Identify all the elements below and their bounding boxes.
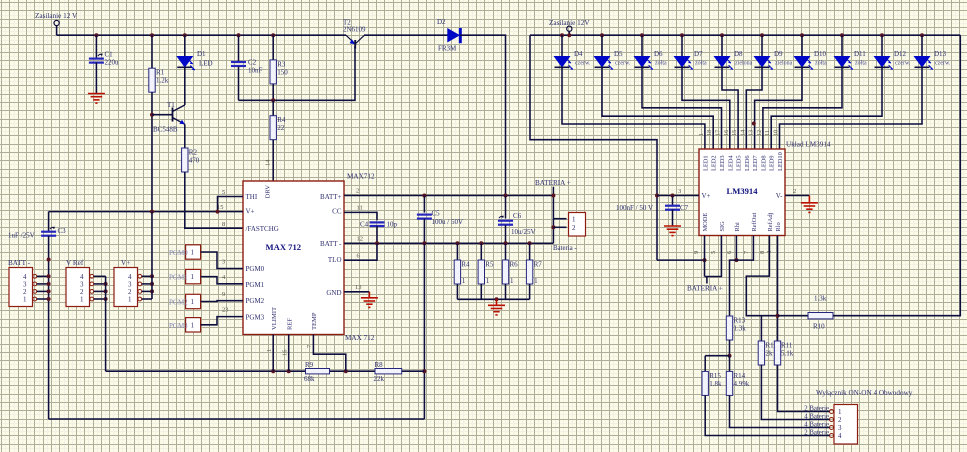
svg-text:BATT+: BATT+ [320, 193, 342, 201]
svg-text:VLIMIT: VLIMIT [271, 307, 278, 330]
svg-text:RefAdj: RefAdj [767, 212, 774, 231]
wire VLIMIT row (left) [106, 370, 311, 372]
LED D8 (zielona) [715, 50, 753, 70]
svg-text:D7: D7 [694, 50, 703, 58]
wire D13 cathode to LM3914 pin 10 [780, 67, 923, 149]
wire VLIMIT row (right) [402, 370, 425, 372]
junction D11/rail [840, 33, 844, 37]
svg-text:470: 470 [189, 157, 200, 165]
wire T1 base [152, 114, 173, 116]
wire T2 collector to D2 [364, 34, 448, 36]
LED D7 (żółta) [675, 50, 707, 70]
svg-text:R14: R14 [734, 372, 746, 380]
svg-text:4.99k: 4.99k [734, 380, 750, 388]
wire D10 cathode to LM3914 pin 7 [755, 67, 802, 149]
svg-text:10nF: 10nF [248, 67, 263, 75]
svg-text:68k: 68k [304, 375, 315, 383]
svg-text:D13: D13 [934, 50, 947, 58]
svg-text:1: 1 [510, 277, 514, 285]
svg-text:22k: 22k [374, 375, 385, 383]
connector PGM2 (1-pin) [169, 294, 201, 308]
wire V Ref vertical [105, 276, 107, 371]
junction V Ref bus [104, 289, 108, 293]
wire R3 top lead [272, 35, 274, 60]
wire C6 top lead [505, 196, 507, 219]
wire C5 top lead [423, 196, 425, 213]
wire SIG pin loop [705, 236, 722, 277]
LED D13 (czerw.) [915, 50, 951, 70]
junction REF [287, 369, 291, 373]
wire D9 cathode to LM3914 pin 6 [746, 67, 762, 149]
svg-text:LED9: LED9 [769, 155, 776, 171]
wire D9 anode [761, 35, 763, 56]
wire D8 cathode to LM3914 pin 5 [722, 67, 738, 149]
junction BATERIA+/BATT+ row [551, 194, 555, 198]
wire TLO jog [344, 243, 377, 260]
svg-text:PGM0: PGM0 [246, 265, 265, 273]
svg-text:zielona: zielona [775, 61, 793, 67]
wire R1 top lead [151, 35, 153, 68]
svg-text:DRV: DRV [265, 185, 272, 199]
svg-text:żółta: żółta [655, 61, 667, 67]
junction R3/rail [271, 33, 275, 37]
wire V Ref pin [94, 290, 106, 292]
wire R7 top lead [529, 243, 531, 260]
node Zasilanie 12V (right power terminal) [549, 19, 590, 31]
wire C6 bottom lead [505, 225, 507, 243]
svg-text:TEMP: TEMP [311, 312, 318, 330]
junction V Ref bus [104, 282, 108, 286]
wire battery vertical [552, 187, 554, 244]
resistor R12 [758, 341, 777, 365]
capacitor C2 [231, 59, 263, 75]
wire terminal stem [56, 26, 58, 36]
wire right vertical (BATT- to bottom) [423, 243, 425, 419]
wire C1 top lead [95, 35, 97, 59]
wire V+ pin [142, 290, 152, 292]
svg-text:Rhi: Rhi [734, 222, 741, 231]
wire BATT- pin [37, 298, 49, 300]
svg-text:LED2: LED2 [711, 155, 718, 171]
svg-text:LED1: LED1 [702, 155, 709, 171]
svg-text:TLO: TLO [328, 256, 342, 264]
svg-text:V+: V+ [246, 208, 255, 216]
svg-text:9: 9 [222, 291, 225, 298]
junction R3/R4/base row [271, 98, 275, 102]
wire D11 cathode to LM3914 pin 8 [763, 67, 842, 149]
wire V+ pin [142, 275, 152, 277]
svg-text:R6: R6 [510, 261, 519, 269]
wire C4 bottom lead [376, 226, 378, 243]
svg-text:1uF /25V: 1uF /25V [8, 232, 35, 240]
svg-text:czerw.: czerw. [935, 61, 951, 67]
svg-text:V Ref: V Ref [66, 259, 84, 267]
svg-text:1: 1 [191, 321, 195, 329]
wire D4 cathode to LM3914 pin 1 [562, 67, 705, 149]
wire TEMP jog [313, 335, 345, 372]
wire junction row to R15 [705, 355, 729, 357]
connector PGM3 (1-pin) [169, 318, 201, 332]
wire R1 bottom / V+ column [151, 92, 153, 211]
junction MODE [703, 258, 707, 262]
junction Rlo/R10 row [776, 314, 780, 318]
wire C7 top lead [672, 196, 674, 206]
svg-text:BATERIA +: BATERIA + [687, 285, 723, 293]
LED D4 (czerw.) [555, 50, 591, 70]
svg-text:czerw.: czerw. [575, 61, 591, 67]
svg-text:10p: 10p [387, 221, 398, 229]
wire D13 anode [921, 35, 923, 56]
svg-text:11: 11 [357, 205, 363, 212]
svg-text:1.3k: 1.3k [814, 295, 827, 303]
wire D1 anode lead [184, 35, 186, 56]
wire R4 to DRV pin [272, 140, 274, 181]
svg-text:1: 1 [838, 408, 842, 416]
wire C3 to bottom rail [48, 236, 50, 419]
junction R7/BATT- row [528, 241, 532, 245]
svg-text:1: 1 [572, 215, 576, 223]
connector V+ (4-pin) [114, 259, 142, 307]
svg-text:1: 1 [80, 296, 84, 304]
junction C7/V+ [671, 194, 675, 198]
capacitor C5 [417, 210, 440, 219]
svg-text:1: 1 [462, 277, 466, 285]
wire D1 cathode to T1 collector [184, 67, 186, 105]
wire bottom rail [49, 418, 425, 420]
wire V+ pin [142, 283, 152, 285]
svg-text:D4: D4 [574, 50, 583, 58]
svg-text:3: 3 [222, 259, 225, 266]
svg-text:MODE: MODE [702, 213, 709, 232]
svg-text:13: 13 [748, 130, 755, 136]
svg-text:2 Baterie: 2 Baterie [804, 406, 829, 413]
svg-text:2: 2 [838, 416, 842, 424]
resistor R4 (1 ohm) [454, 260, 470, 285]
svg-text:żółta: żółta [815, 61, 827, 67]
resistor R6 (1 ohm) [502, 260, 518, 285]
transistor T2 2N6109 [343, 19, 366, 49]
svg-text:Układ LM3914: Układ LM3914 [786, 141, 831, 149]
wire R4 top lead [456, 243, 458, 260]
wire +12V rail (left) [57, 34, 346, 36]
junction C4/TLO [375, 241, 379, 245]
svg-text:14: 14 [265, 159, 272, 166]
wire LM3914 V- pin [785, 195, 809, 197]
svg-text:R11: R11 [781, 342, 793, 350]
wire PGM1 to MAX712 [201, 277, 243, 284]
wire VLIMIT row (mid) [329, 370, 375, 372]
svg-text:9: 9 [693, 251, 700, 254]
resistor R3 [270, 60, 288, 84]
junction C5/BATT+ [422, 194, 426, 198]
svg-text:R5: R5 [485, 261, 494, 269]
svg-text:zielona: zielona [735, 61, 753, 67]
svg-text:PGM1: PGM1 [169, 274, 188, 282]
svg-text:PGM2: PGM2 [246, 297, 265, 305]
svg-text:LED7: LED7 [752, 155, 759, 171]
svg-text:R3: R3 [277, 60, 286, 68]
junction D1/rail [183, 33, 187, 37]
wire R5 top lead [480, 243, 482, 260]
svg-text:Zasilanie 12 V: Zasilanie 12 V [35, 12, 78, 20]
svg-text:2: 2 [572, 224, 576, 232]
svg-text:12: 12 [357, 236, 364, 243]
capacitor C1 [89, 51, 119, 67]
svg-text:Rlo: Rlo [775, 222, 782, 231]
svg-text:PGM2: PGM2 [169, 299, 188, 307]
LED D9 (zielona) [755, 50, 793, 70]
svg-text:16: 16 [282, 349, 289, 356]
svg-text:żółta: żółta [855, 61, 867, 67]
svg-text:1: 1 [191, 249, 195, 257]
LED D10 (żółta) [795, 50, 827, 70]
junction C5/BATT- row [422, 241, 426, 245]
labels switch pin nets [804, 406, 829, 437]
junction D10/rail [800, 33, 804, 37]
svg-text:R15: R15 [709, 372, 721, 380]
wire MODE to V+ [657, 259, 705, 261]
junction terminal/rail [567, 33, 571, 37]
svg-text:THI: THI [246, 193, 258, 201]
svg-text:/FASTCHG: /FASTCHG [246, 225, 279, 233]
wire C1 bottom lead [95, 62, 97, 93]
capacitor C4 [360, 221, 398, 229]
wire D12 anode [881, 35, 883, 56]
wire REF pin [288, 335, 290, 372]
resistor R2 [182, 148, 200, 172]
wire C3 top lead [48, 212, 50, 232]
wire 12V to LM3914 V+ and MODE [530, 35, 657, 260]
svg-text:R4: R4 [277, 116, 286, 124]
junction R4/BATT- row [455, 241, 459, 245]
svg-text:220u: 220u [105, 59, 120, 67]
wire LM3914 V+ pin [657, 195, 699, 197]
junction C6/R6/BATT- row [504, 241, 508, 245]
junction C3 wire [47, 258, 51, 262]
wire D7 anode [681, 35, 683, 56]
junction THI/V+ [216, 210, 220, 214]
wire D5 anode [601, 35, 603, 56]
wire R14 top lead [729, 356, 731, 372]
svg-text:LED8: LED8 [760, 155, 767, 171]
wire V Ref pin [94, 298, 106, 300]
svg-text:PGM0: PGM0 [169, 249, 188, 257]
svg-text:PGM3: PGM3 [246, 314, 265, 322]
wire R10 left lead [778, 315, 809, 317]
svg-text:C2: C2 [248, 59, 257, 67]
connector V Ref (4-pin) [66, 259, 94, 307]
wire D2 to BATT+ row [460, 35, 506, 195]
capacitor C7 [665, 204, 689, 212]
junction D13/rail [920, 33, 924, 37]
svg-text:PGM1: PGM1 [246, 281, 265, 289]
wire V+ pin [142, 298, 152, 300]
svg-text:R13: R13 [734, 317, 746, 325]
junction D2/C6/BATT+ [504, 194, 508, 198]
connector Bateria (2-pin) [569, 213, 586, 237]
svg-text:V+: V+ [121, 259, 130, 267]
wire battery pin2 [553, 226, 566, 228]
wire BATT+ row [344, 195, 553, 197]
svg-text:1.3k: 1.3k [734, 325, 747, 333]
resistor R8 [374, 361, 402, 383]
wire MODE pin / BATERIA+ stub [704, 236, 706, 277]
svg-text:D5: D5 [614, 50, 623, 58]
ground (C1) [88, 94, 105, 104]
wire R15 to switch pin4 [705, 395, 829, 435]
wire R12 top lead [760, 316, 762, 341]
svg-text:D9: D9 [774, 50, 783, 58]
svg-text:D2: D2 [437, 18, 446, 26]
svg-text:R10: R10 [813, 323, 825, 331]
svg-text:D6: D6 [654, 50, 663, 58]
capacitor C6 [498, 212, 522, 225]
wire R7 bottom lead [529, 284, 531, 299]
svg-text:1: 1 [698, 133, 705, 136]
svg-text:C1: C1 [105, 51, 114, 59]
wire +12V LED rail [530, 34, 960, 36]
svg-text:3: 3 [838, 424, 842, 432]
wire R4 top lead [272, 100, 274, 115]
svg-text:LED4: LED4 [727, 155, 734, 171]
svg-text:14: 14 [739, 130, 746, 136]
svg-text:LM3914: LM3914 [726, 186, 758, 196]
svg-text:11: 11 [764, 130, 771, 136]
svg-text:LED10: LED10 [777, 152, 784, 171]
junction V+ wire [655, 194, 659, 198]
svg-text:1: 1 [191, 273, 195, 281]
svg-text:LED5: LED5 [736, 155, 743, 171]
junction Rhi/RefOut [734, 258, 738, 262]
svg-text:żółta: żółta [695, 61, 707, 67]
junction C2/rail [237, 33, 241, 37]
svg-text:R9: R9 [305, 361, 314, 369]
svg-text:D1: D1 [197, 50, 206, 58]
wire D5 cathode to LM3914 pin 2 [602, 67, 713, 149]
svg-text:T1: T1 [167, 101, 175, 109]
svg-text:2 Baterie: 2 Baterie [804, 430, 829, 437]
svg-text:100nF / 50 V: 100nF / 50 V [616, 204, 653, 212]
svg-text:C4: C4 [360, 221, 369, 229]
svg-text:R1: R1 [156, 69, 165, 77]
resistor R1 [149, 68, 169, 92]
ground (V-) [801, 196, 818, 213]
svg-text:LED6: LED6 [744, 155, 751, 171]
svg-text:4 Baterie: 4 Baterie [804, 414, 829, 421]
svg-text:R7: R7 [534, 261, 543, 269]
wire V+ vertical [151, 212, 153, 299]
svg-text:D8: D8 [734, 50, 743, 58]
wire D7 cathode to LM3914 pin 4 [682, 67, 730, 149]
wire D4 anode [561, 35, 563, 56]
wire R12 to switch pin2 [761, 365, 829, 420]
wire BATT- pin [37, 283, 49, 285]
svg-text:1: 1 [266, 349, 273, 352]
svg-text:BATERIA +: BATERIA + [535, 179, 571, 187]
svg-text:13: 13 [355, 284, 362, 291]
wire D6 anode [641, 35, 643, 56]
junction BATT- bus [47, 289, 51, 293]
connector PGM1 (1-pin) [169, 269, 201, 283]
svg-text:3: 3 [678, 188, 681, 195]
wire D10 anode [801, 35, 803, 56]
svg-text:C6: C6 [513, 212, 522, 220]
svg-text:SIG: SIG [719, 221, 726, 232]
pin numbers LM3914 top row [698, 130, 780, 136]
LED D11 (żółta) [835, 50, 867, 70]
diode D2 FR3M [437, 18, 460, 53]
wire R5 bottom lead [480, 284, 482, 299]
junction D9/rail [760, 33, 764, 37]
svg-text:Bateria -: Bateria - [553, 245, 577, 252]
junction TEMP [344, 369, 348, 373]
capacitor C3 [41, 227, 66, 236]
svg-text:1.8k: 1.8k [709, 380, 722, 388]
node Zasilanie 12 V (left power terminal) [35, 12, 78, 26]
svg-text:1: 1 [128, 296, 132, 304]
wire C2 top lead [238, 35, 240, 62]
svg-text:CC: CC [332, 208, 342, 216]
wire BATT- row [344, 242, 553, 244]
resistor R14 [726, 371, 749, 395]
svg-text:V+: V+ [702, 192, 711, 200]
wire BATT- pin [37, 275, 49, 277]
resistor R13 [726, 316, 746, 340]
junction V Ref bus [104, 297, 108, 301]
LED D1 [177, 50, 212, 70]
wire T1 emitter to R2 [184, 124, 186, 148]
junction R13/R14/R15 [728, 354, 732, 358]
svg-text:150: 150 [277, 68, 288, 76]
wire RefAdj to Rlo/R10 node [746, 236, 777, 316]
svg-text:BATT -: BATT - [320, 240, 342, 248]
wire D12 cathode to LM3914 pin 9 [771, 67, 882, 149]
svg-text:Zasilanie 12V: Zasilanie 12V [549, 19, 590, 27]
svg-text:23: 23 [222, 307, 229, 314]
wire BATT- pin [37, 290, 49, 292]
svg-text:4 Baterie: 4 Baterie [804, 422, 829, 429]
wire V Ref pin [94, 275, 106, 277]
wire D6 cathode to LM3914 pin 3 [642, 67, 722, 149]
wire C2 bottom lead [238, 67, 240, 101]
svg-text:FR3M: FR3M [438, 45, 457, 53]
junction gnd row [495, 297, 499, 301]
op-amp U2 LM3914 [699, 149, 785, 236]
junction D7/rail [680, 33, 684, 37]
svg-text:1: 1 [191, 298, 195, 306]
svg-text:5.1k: 5.1k [781, 350, 794, 358]
svg-text:MAX 712: MAX 712 [345, 334, 375, 342]
svg-text:2: 2 [793, 188, 796, 195]
junction BATT- bus [47, 274, 51, 278]
svg-text:RefOut: RefOut [751, 212, 758, 231]
svg-text:D10: D10 [814, 50, 827, 58]
ground (sense resistors) [488, 299, 505, 315]
svg-text:15: 15 [217, 204, 224, 211]
LED D12 (czerw.) [875, 50, 911, 70]
stray junction on LED7 pin wire [752, 122, 756, 126]
svg-text:BC548B: BC548B [153, 126, 178, 134]
svg-text:LED3: LED3 [719, 155, 726, 171]
svg-text:17: 17 [715, 130, 722, 136]
svg-text:8: 8 [759, 251, 766, 254]
wire BATERIA+ stub down [706, 277, 708, 284]
wire battery pin1 [553, 218, 566, 220]
svg-text:V-: V- [776, 192, 783, 200]
svg-text:10: 10 [773, 130, 780, 136]
junction D4/rail [560, 33, 564, 37]
resistor R4 (22) [270, 116, 286, 140]
